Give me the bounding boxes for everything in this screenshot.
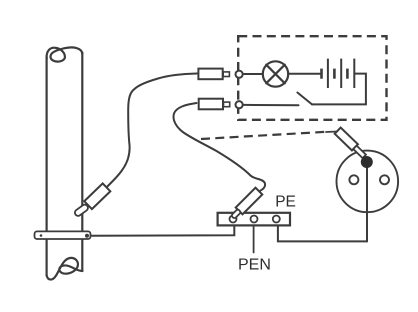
pipe right edge <box>81 53 83 272</box>
clamp bar <box>35 231 91 239</box>
socket hole right <box>380 175 389 184</box>
terminal 3 <box>273 216 280 223</box>
clamp bar right rivet <box>85 234 89 238</box>
lamp <box>263 61 288 86</box>
block probe body <box>229 188 262 221</box>
socket probe cable stub <box>326 131 337 134</box>
pipe top break squiggle <box>47 47 83 61</box>
wire battery to switch corner <box>312 74 366 105</box>
probe P2 ball <box>236 101 243 108</box>
probe P1 body <box>198 69 222 80</box>
pipe probe body <box>84 183 110 209</box>
battery plate short 2 <box>333 69 336 79</box>
probe P2 neck <box>224 102 230 107</box>
probe P1 neck <box>223 72 229 77</box>
wire ball1 to lamp <box>243 73 262 75</box>
test lead wire 2 (to block probe) <box>174 103 266 191</box>
probe P1 ball <box>236 71 243 78</box>
socket PE contact dot <box>361 156 373 168</box>
battery plate tall 1 <box>327 59 329 88</box>
svg-text:PE: PE <box>275 194 296 211</box>
terminal 1 <box>230 216 237 223</box>
pipe bottom break squiggle main <box>47 258 83 280</box>
probe P2 body <box>199 99 223 110</box>
PEN leader line <box>253 226 255 253</box>
clamp bar left rivet <box>40 234 43 237</box>
switch blade <box>297 93 312 105</box>
dashed tester box <box>238 36 386 120</box>
socket outline <box>337 151 399 213</box>
pipe left edge <box>45 57 47 276</box>
wire lamp to battery <box>289 73 320 75</box>
battery plate short 1 <box>320 69 323 79</box>
test lead wire 1 (to pipe probe) <box>107 74 198 188</box>
socket hole left <box>349 175 358 184</box>
wire: terminal block to socket <box>278 226 367 242</box>
lamp X stroke 2 <box>266 65 285 84</box>
socket probe body <box>335 128 368 160</box>
battery plate tall 2 <box>340 59 342 88</box>
wire: clamp bar to terminal block <box>92 226 234 236</box>
terminal block <box>218 213 290 226</box>
terminal 2 <box>251 216 258 223</box>
battery plate short 3 <box>346 69 349 79</box>
wire: socket PE vertical <box>366 162 368 241</box>
battery plate tall 3 <box>353 59 355 88</box>
wire ball2 to switch <box>243 104 298 106</box>
svg-text:PEN: PEN <box>238 257 271 274</box>
pipe probe tip <box>74 203 90 217</box>
lamp X stroke 1 <box>266 65 285 84</box>
socket probe dashed lead <box>201 132 326 139</box>
